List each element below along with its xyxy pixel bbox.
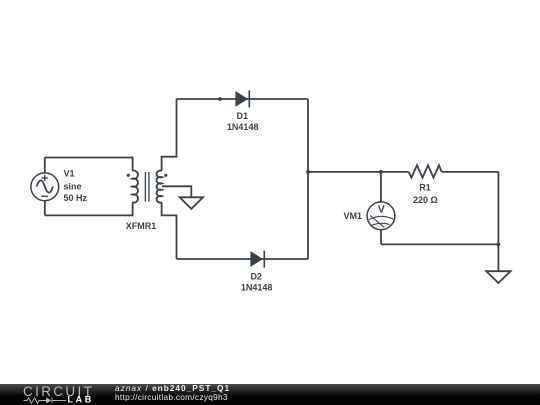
wire bottom rail (177, 258, 309, 260)
svg-text:XFMR1: XFMR1 (126, 221, 157, 231)
svg-text:1N4148: 1N4148 (227, 122, 259, 132)
voltage source V1 (31, 173, 59, 201)
diode D1 (235, 90, 249, 107)
wire R1 right lead (442, 171, 499, 173)
logo schematic squiggle diode (44, 398, 66, 404)
svg-text:220 Ω: 220 Ω (413, 195, 438, 205)
ground right (486, 271, 510, 283)
wire center tap (162, 186, 191, 197)
svg-text:LAB: LAB (68, 395, 94, 405)
wire V1 bottom lead (44, 201, 46, 216)
footer bar (0, 384, 540, 405)
wire V1 top lead (44, 158, 46, 173)
svg-text:V: V (378, 203, 385, 215)
wire VM1 top lead (380, 172, 382, 202)
wire secondary top to diode loop (162, 99, 177, 171)
svg-text:1N4148: 1N4148 (241, 283, 273, 293)
resistor R1 (409, 165, 442, 177)
wire top rail (177, 98, 309, 100)
node junction dot right rail (306, 170, 310, 174)
transformer XFMR1 primary winding (132, 171, 138, 203)
diode D2 (250, 251, 264, 268)
transformer XFMR1 secondary phase dot (164, 174, 167, 177)
wire V1 bottom to primary (45, 202, 133, 215)
svg-text:D1: D1 (237, 111, 249, 121)
svg-text:R1: R1 (419, 183, 431, 193)
node junction dot bottom right (497, 243, 501, 247)
logo schematic squiggle resistor (24, 398, 45, 403)
svg-text:http://circuitlab.com/czyq9h3: http://circuitlab.com/czyq9h3 (115, 392, 228, 402)
node junction dot VM1 top (379, 170, 383, 174)
wire mid branch (308, 171, 381, 173)
wire VM1 bottom lead (380, 230, 382, 245)
transformer XFMR1 core (145, 172, 149, 202)
transformer XFMR1 secondary winding (157, 171, 162, 203)
svg-text:D2: D2 (250, 271, 262, 281)
wire VM1 bottom to right (381, 243, 498, 245)
wire V1 top to primary (45, 158, 133, 171)
ground center tap (180, 197, 203, 209)
voltmeter VM1 (367, 202, 395, 230)
transformer XFMR1 primary phase dot (127, 174, 130, 177)
wire R1 left lead (381, 171, 409, 173)
wire secondary bottom to diode loop (162, 202, 177, 259)
svg-text:50 Hz: 50 Hz (64, 193, 88, 203)
svg-text:sine: sine (64, 182, 82, 192)
wire right drop (497, 172, 499, 271)
node junction dot top rail (218, 97, 222, 101)
svg-text:VM1: VM1 (343, 211, 362, 221)
svg-text:V1: V1 (64, 169, 75, 179)
wire right rail (307, 99, 309, 259)
